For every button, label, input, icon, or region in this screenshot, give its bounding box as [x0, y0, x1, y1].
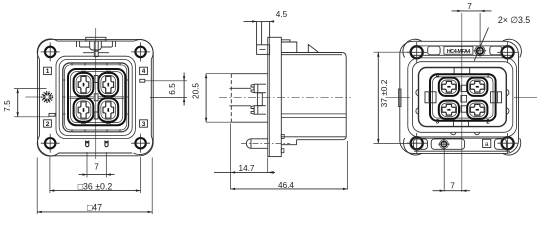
top rail recess right — [490, 46, 502, 55]
rear ring 2 — [412, 62, 512, 133]
front view outer body outline — [38, 39, 154, 155]
rear ear top-right — [497, 42, 517, 62]
dimension 37 +-0.2 — [374, 52, 410, 143]
dimension square47 — [37, 158, 152, 215]
svg-text:4: 4 — [436, 73, 440, 80]
svg-text:20.5: 20.5 — [192, 83, 201, 99]
front view top latch bracket — [77, 41, 116, 53]
front view top latch tab — [86, 37, 106, 41]
housing seal ring C — [63, 63, 129, 132]
dimension 46.4 — [231, 141, 348, 190]
bottom drain pin left — [86, 141, 89, 147]
hole dia 3.5 — [474, 46, 487, 56]
rear ring 1 — [408, 58, 517, 137]
bottom rail recess far-left — [414, 139, 428, 149]
dimension 6.5 — [145, 73, 187, 106]
svg-text:1: 1 — [46, 68, 50, 75]
rear ear top-left — [407, 42, 427, 62]
svg-text:7: 7 — [450, 181, 455, 190]
contact cavity 2 (bottom-left) — [74, 98, 94, 121]
rear seal top/bottom slots — [454, 68, 470, 127]
shroud bottom wall — [281, 137, 346, 145]
front corner inner arcs — [37, 39, 153, 156]
bottom rail lines — [412, 138, 512, 151]
rear corner inner arcs — [403, 39, 521, 155]
svg-text:□47: □47 — [87, 202, 102, 212]
bottom mounting peg — [246, 139, 268, 149]
mounting hole ear bottom-left — [41, 134, 60, 153]
svg-text:□36 ±0.2: □36 ±0.2 — [78, 182, 113, 192]
rear housing stubs — [229, 88, 251, 106]
peg hole circle — [438, 139, 449, 150]
side wedge left — [425, 92, 436, 103]
rear ear bottom-left — [407, 133, 427, 153]
rear housing — [231, 74, 267, 123]
bottom rail recess with peg hole — [431, 139, 464, 149]
svg-text:14.7: 14.7 — [239, 164, 255, 173]
svg-text:7: 7 — [94, 163, 99, 172]
svg-text:7: 7 — [467, 2, 472, 11]
dimension 4.5 — [244, 10, 288, 23]
mounting hole ear bottom-right — [131, 134, 150, 153]
dimension 7 (rear top) — [452, 2, 492, 57]
rear view outer body — [400, 41, 519, 153]
leader 2x dia3.5 — [474, 15, 530, 61]
seal ring C segments — [63, 63, 129, 132]
top rail recess left — [428, 46, 440, 55]
bottom drain pin right — [105, 141, 108, 147]
rear contact 3 (bottom-left) — [439, 101, 459, 119]
cavity label box 2 — [44, 120, 52, 128]
mounting hole ear top-right — [131, 42, 150, 61]
cavity label box 3 — [140, 120, 148, 128]
rear contact 4 (top-left) — [439, 78, 459, 96]
housing ring A — [56, 56, 135, 138]
top flange boss — [281, 40, 297, 53]
svg-text:4.5: 4.5 — [276, 10, 288, 19]
front view inset edges — [40, 41, 152, 153]
dimension square36 — [50, 157, 140, 193]
coding gear feature — [42, 92, 53, 103]
rear contact 1 (top-right) — [467, 78, 487, 96]
cavity label box 4 — [140, 67, 148, 75]
shroud inner lower wall — [281, 114, 346, 118]
cavity label box 1 — [44, 67, 52, 75]
side wedge right — [491, 92, 502, 103]
top rail lines — [412, 46, 512, 55]
shroud top wall — [281, 53, 342, 55]
contact group frame — [68, 69, 125, 125]
rear ring2 bottom scallops — [451, 132, 480, 135]
side view horizontal centerline — [219, 96, 351, 98]
rear contact frame — [430, 74, 496, 120]
svg-text:37 ±0.2: 37 ±0.2 — [379, 79, 389, 107]
mounting hole ear top-left — [41, 42, 60, 61]
housing ring B — [59, 59, 132, 135]
dimension 7.5 — [3, 89, 49, 117]
latch ramp triangle — [308, 45, 319, 53]
front view top latch center box — [94, 51, 98, 56]
svg-text:3: 3 — [142, 121, 146, 128]
front view vertical centerline — [95, 28, 97, 159]
rear contact 2 (bottom-right) — [467, 101, 487, 119]
marking text box — [444, 46, 473, 54]
contact cavity 1 (top-left) — [74, 73, 94, 96]
flange bottom bosses — [281, 134, 284, 138]
row gap lines — [70, 97, 125, 98]
flange plate — [268, 37, 282, 156]
svg-text:2: 2 — [486, 119, 490, 126]
svg-text:a: a — [485, 141, 489, 148]
peg centerline — [241, 143, 290, 145]
terminal clip upper — [251, 84, 266, 93]
label box a — [483, 139, 491, 148]
rear view vertical centerline — [461, 13, 463, 192]
left reference tab — [49, 113, 55, 116]
svg-text:4: 4 — [142, 68, 146, 75]
dimension 14.7 — [214, 124, 275, 190]
svg-text:2: 2 — [46, 121, 50, 128]
front view horizontal centerline — [26, 96, 42, 98]
dimension 20.5 — [192, 74, 232, 123]
svg-text:7.5: 7.5 — [3, 100, 12, 112]
contact cavity 4 (top-right) — [98, 73, 118, 96]
right reference tab — [140, 79, 145, 82]
center keying ribs — [94, 76, 98, 83]
rear center keys — [461, 85, 467, 91]
dimension 7 (rear bottom) — [433, 148, 471, 192]
rear seal scallops — [416, 89, 509, 114]
flange inner line — [269, 37, 271, 156]
latch head box — [257, 45, 270, 55]
terminal clip lower — [251, 106, 266, 115]
rear view horizontal centerline — [386, 96, 538, 98]
svg-text:2× ∅3.5: 2× ∅3.5 — [498, 15, 530, 25]
contact stadium notches — [82, 71, 111, 123]
contact cavity 3 (bottom-right) — [98, 98, 118, 121]
dimension 7 (front bottom) — [79, 152, 115, 178]
left edge notch — [398, 89, 401, 107]
shroud right edge — [342, 53, 346, 140]
svg-text:46.4: 46.4 — [278, 181, 294, 190]
bottom rail recess right — [495, 139, 507, 149]
svg-text:3: 3 — [436, 119, 440, 126]
svg-text:6.5: 6.5 — [168, 83, 177, 95]
center key block — [257, 93, 262, 106]
rear seal ring — [419, 68, 507, 127]
svg-text:HC4-MFA4: HC4-MFA4 — [447, 49, 470, 55]
latch tower — [257, 22, 270, 45]
svg-text:1: 1 — [486, 73, 490, 80]
rear ear bottom-right — [497, 133, 517, 153]
